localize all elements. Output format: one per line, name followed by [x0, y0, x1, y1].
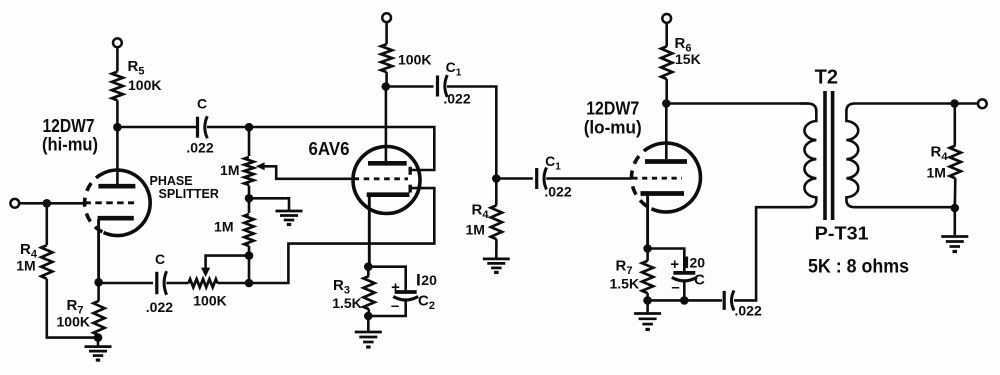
capacitor C (cathode coupling) [157, 271, 167, 295]
ground (R4 mid) [483, 259, 510, 273]
svg-text:+: + [391, 279, 400, 296]
svg-text:15K: 15K [675, 51, 701, 67]
svg-text:P-T31: P-T31 [815, 224, 869, 244]
wire pot to bottom junction [218, 188, 435, 283]
wire 1M lower to bottom rail [248, 246, 251, 283]
resistor 1M upper (pot) [244, 157, 253, 185]
tube V3 envelope dashed arc [631, 146, 651, 209]
wire secondary top to output [856, 102, 978, 105]
capacitor C1 (to V3) [438, 75, 448, 97]
wire R7b bottom [646, 293, 649, 300]
wire divider mid to ground [249, 198, 289, 210]
tube V2 plate bar [368, 161, 407, 166]
capacitor C2 (electrolytic) [393, 292, 418, 300]
svg-text:20: 20 [690, 255, 706, 271]
input terminal [10, 199, 19, 208]
svg-text:T2: T2 [815, 67, 838, 89]
tube V3 plate bar [645, 159, 687, 164]
node R3 bottom junction [364, 312, 373, 321]
svg-text:1M: 1M [16, 258, 35, 274]
tube V2 diode stub lower [409, 185, 412, 193]
terminal B+ (R6) [662, 14, 671, 23]
ground (divider mid) [276, 211, 303, 225]
node 6AV6 plate junction [382, 82, 391, 91]
ground (V1 cathode) [85, 347, 112, 361]
wire R4c bottom [953, 178, 956, 208]
svg-text:.022: .022 [443, 91, 470, 107]
node ground junction (R7a) [94, 333, 103, 342]
wire C2 top [368, 267, 405, 291]
terminal B+ (6AV6) [382, 13, 391, 22]
svg-text:–: – [671, 279, 679, 296]
svg-text:100K: 100K [398, 52, 431, 68]
pot wiper arrow (100K) [201, 268, 210, 277]
resistor R4 (output) [950, 146, 961, 179]
wire divider top to diode stub [249, 127, 434, 170]
svg-text:1M: 1M [220, 162, 239, 178]
wire V3 plate lead [665, 104, 668, 160]
wire plate node to C1 [386, 85, 434, 88]
output terminal [978, 99, 987, 108]
wire ground stem (output) [953, 208, 956, 235]
tube V1 cathode [98, 218, 134, 282]
resistor R4 (V3 grid leak) [491, 205, 502, 239]
svg-text:–: – [391, 298, 399, 315]
wire R5 to plate node [116, 100, 119, 127]
wire ground stem (R3) [367, 316, 370, 332]
tube V2 grid (dashed) [354, 177, 409, 180]
wire plate lead V1 [116, 127, 119, 184]
label 20 tick (bypass) [685, 257, 688, 269]
wire R4b top [495, 179, 498, 206]
wire R6 to plate node [665, 79, 668, 104]
wire plate node to cap C [121, 126, 196, 129]
wire R7a top [97, 282, 100, 301]
resistor R6 [661, 46, 672, 79]
tube V3 cathode [641, 194, 685, 249]
svg-text:6AV6: 6AV6 [309, 139, 350, 159]
transformer T2 primary winding [800, 104, 816, 208]
svg-text:1M: 1M [466, 222, 485, 238]
svg-text:.022: .022 [146, 299, 173, 315]
capacitor C1 (to V3 grid) [537, 168, 547, 190]
wire bypass cap bottom [683, 282, 686, 301]
svg-text:1.5K: 1.5K [610, 276, 640, 292]
wiper arrow 1M to 6AV6 grid [256, 162, 354, 179]
svg-text:1M: 1M [927, 165, 946, 181]
tube V1 envelope dashed arc [85, 173, 104, 232]
ground (V3 cathode) [634, 314, 661, 330]
resistor 1M lower [244, 214, 253, 246]
wire C1 to grid column [447, 87, 496, 179]
svg-text:+: + [670, 256, 679, 273]
ground (output) [941, 237, 968, 252]
svg-text:.022: .022 [544, 184, 571, 200]
svg-text:.022: .022 [735, 303, 762, 319]
tube V2 cathode [367, 195, 410, 267]
node pot-tap junction [245, 251, 254, 260]
svg-text:(hi-mu): (hi-mu) [42, 135, 98, 155]
wire pot wiper tap [206, 256, 249, 268]
svg-text:C: C [197, 96, 207, 112]
wire bypass cap top [648, 249, 685, 272]
transformer T2 secondary winding [846, 104, 858, 208]
node feedback junction [680, 296, 689, 305]
svg-text:100K: 100K [128, 77, 161, 93]
resistor R5 [112, 72, 123, 101]
capacitor C bypass (electrolytic) [672, 273, 697, 281]
wire R3 bottom [367, 309, 370, 316]
svg-text:20: 20 [421, 272, 437, 288]
wire R4b bottom [495, 239, 498, 259]
tube V1 envelope solid arc [104, 170, 151, 236]
wire feedback to transformer [734, 207, 808, 300]
resistor R7 (V3 cathode) [642, 261, 653, 293]
wire junction to C1b [496, 177, 533, 180]
wire terminal to R5 [116, 47, 119, 71]
wire 100K to plate node [385, 72, 388, 86]
wire ground stem (R7b) [646, 300, 649, 313]
svg-text:(lo-mu): (lo-mu) [584, 118, 642, 138]
tube V1 grid (dashed) [84, 201, 134, 204]
transformer T2 core [825, 91, 833, 220]
capacitor .022 (feedback) [724, 290, 734, 310]
node V3 plate junction [662, 99, 671, 108]
wire 6AV6 plate lead [385, 87, 388, 162]
capacitor C (top coupling) [198, 116, 208, 138]
node V1 cathode junction [94, 278, 103, 287]
tube V2 envelope [353, 147, 420, 214]
wire R3 top lead [367, 267, 370, 276]
node R3 top junction [364, 262, 373, 271]
label 20 tick (C2) [417, 274, 420, 286]
svg-text:.022: .022 [186, 140, 213, 156]
tube V3 grid (dashed) [632, 177, 682, 180]
svg-text:C: C [155, 251, 165, 267]
wire feedback node to cap [684, 299, 722, 302]
node input junction [43, 199, 52, 208]
terminal B+ (R5 top) [113, 38, 122, 47]
svg-text:C: C [694, 272, 705, 289]
tube V3 envelope solid arc [651, 143, 700, 212]
wire cap C to divider node [207, 126, 249, 129]
svg-text:1.5K: 1.5K [332, 295, 362, 311]
wire C1b to V3 grid [546, 177, 632, 180]
resistor R3 [363, 276, 374, 309]
node output junction [950, 99, 959, 108]
wire terminal to R6 [665, 23, 668, 47]
resistor R7 (V1 cathode) [93, 301, 104, 336]
wire V3 plate node to primary [666, 102, 808, 105]
node divider top [245, 123, 254, 132]
node C1b input junction [492, 174, 501, 183]
node divider mid [245, 194, 254, 203]
ground (R3) [355, 332, 382, 347]
tube V2 diode stub upper [409, 167, 412, 175]
wire R4c top [953, 104, 956, 146]
wire cap to pot 100K [166, 282, 188, 285]
wire terminal to 100K [385, 22, 388, 44]
potentiometer 100K [189, 279, 218, 287]
wire C2 bottom [368, 301, 405, 317]
tube V1 plate bar [98, 184, 135, 189]
svg-text:12DW7: 12DW7 [586, 99, 639, 119]
node bottom rail junction [245, 279, 254, 288]
svg-text:12DW7: 12DW7 [43, 116, 95, 136]
svg-text:1M: 1M [214, 219, 233, 235]
wire ground stem (R7a) [97, 338, 100, 347]
wire divider upper lead [248, 127, 251, 156]
wire R7b to feedback node [648, 299, 685, 302]
svg-text:SPLITTER: SPLITTER [159, 187, 219, 201]
wire R4a bottom to ground rail [47, 279, 94, 338]
node plate junction V1 [113, 123, 122, 132]
svg-text:5K : 8 ohms: 5K : 8 ohms [808, 257, 909, 278]
resistor R4 (input) [41, 245, 52, 279]
svg-text:100K: 100K [193, 293, 226, 309]
wire secondary bottom [856, 206, 955, 209]
wire R4a top lead [45, 203, 48, 245]
wire R7b top [646, 249, 649, 261]
wire cathode to cap C2b [99, 282, 153, 285]
svg-text:100K: 100K [57, 314, 90, 330]
node secondary bottom junction [951, 204, 960, 213]
node R7b bottom junction [643, 296, 652, 305]
node V3 cathode junction [643, 244, 652, 253]
resistor 100K (6AV6 plate) [381, 44, 392, 72]
wire input to grid [19, 202, 84, 205]
wire 1M junction [248, 186, 251, 214]
